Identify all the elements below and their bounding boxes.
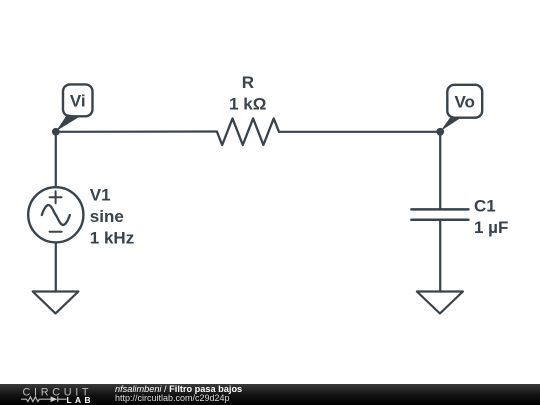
footer line 2: url	[115, 393, 230, 403]
node Vo junction dot	[436, 128, 444, 136]
capacitor C1 top plate	[411, 208, 468, 211]
footer bar	[0, 384, 540, 405]
voltage source V1 circle	[28, 187, 83, 242]
Vo label pointer	[440, 117, 461, 131]
svg-text:1 µF: 1 µF	[474, 218, 508, 237]
svg-text:R: R	[242, 73, 254, 92]
svg-text:1 kΩ: 1 kΩ	[229, 94, 266, 113]
CircuitLab logo	[0, 384, 100, 405]
svg-text:LAB: LAB	[67, 395, 94, 405]
V1 plus sign	[50, 196, 62, 198]
node Vi junction dot	[52, 128, 60, 136]
wire: node Vo down to capacitor top plate	[439, 132, 441, 210]
footer line 1: user / title	[115, 384, 242, 394]
ground symbol (right)	[417, 292, 463, 314]
svg-text:V1: V1	[90, 186, 111, 205]
wire: capacitor bottom plate to ground	[439, 220, 441, 292]
V1 sine waveform	[42, 205, 70, 225]
wire: resistor right lead to node Vo	[279, 131, 440, 133]
ground symbol (left)	[33, 292, 79, 314]
Vi label pointer	[56, 114, 80, 131]
node label box Vi	[63, 84, 93, 116]
svg-text:Vi: Vi	[70, 92, 86, 111]
resistor R zigzag	[217, 118, 279, 145]
logo diode	[51, 396, 58, 402]
svg-text:Vo: Vo	[454, 92, 474, 111]
node label box Vo	[447, 85, 482, 118]
svg-text:C1: C1	[474, 197, 496, 216]
svg-text:1 kHz: 1 kHz	[90, 228, 134, 247]
logo resistor lead-in line	[21, 397, 51, 402]
capacitor C1 bottom plate	[411, 219, 468, 222]
wire: node Vi down to V1 top	[55, 132, 57, 187]
wire: node Vi to resistor left lead	[56, 130, 218, 133]
V1 minus sign	[50, 231, 62, 233]
wire: V1 bottom to ground	[55, 242, 57, 291]
svg-text:sine: sine	[90, 207, 124, 226]
